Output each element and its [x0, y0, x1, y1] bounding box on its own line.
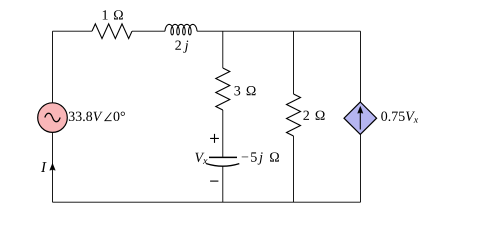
minus polarity mark — [210, 180, 218, 182]
label Vx — [195, 153, 207, 164]
label 2j — [175, 41, 188, 53]
wire R2 to bottom — [293, 136, 295, 202]
resistor R3 3Ω vertical — [216, 68, 230, 110]
resistor R2 2Ω vertical — [287, 94, 301, 136]
label 1 Ω — [103, 10, 123, 19]
bottom wire — [53, 201, 361, 203]
label I — [41, 162, 47, 172]
label 33.8V — [69, 112, 103, 122]
label −5j Ω — [242, 152, 279, 164]
wire R3 to capacitor — [222, 110, 224, 157]
label 3 Ω — [234, 86, 255, 95]
sine symbol inside source — [45, 113, 60, 122]
wire capacitor to bottom — [222, 166, 224, 202]
wire top node to R2 — [293, 31, 295, 94]
current arrow I head — [50, 163, 56, 170]
wire: top-left corner and left rail to source — [53, 31, 93, 103]
inductor L1 2j — [165, 24, 197, 35]
wire R1 to inductor — [132, 30, 165, 32]
wire below source — [52, 132, 54, 202]
capacitor C1 curved plate — [206, 164, 239, 167]
capacitor C1 top plate — [209, 156, 237, 158]
resistor R1 1Ω horizontal — [92, 24, 132, 39]
wire inductor to top-right corner — [197, 30, 361, 32]
label 0 deg — [114, 112, 125, 121]
wire dependent source to bottom-right corner — [360, 134, 362, 202]
plus polarity mark — [210, 134, 219, 143]
label 2 Ω — [303, 111, 324, 120]
dependent source U1 diamond 0.75Vx — [344, 102, 377, 134]
wire top node to R3 — [222, 31, 224, 68]
voltage source Vs 33.8V circle — [38, 103, 68, 133]
angle symbol — [105, 113, 112, 121]
arrow inside dependent source — [359, 109, 361, 130]
wire top-right corner to dependent source — [360, 31, 362, 102]
label 0.75Vx — [381, 111, 418, 122]
